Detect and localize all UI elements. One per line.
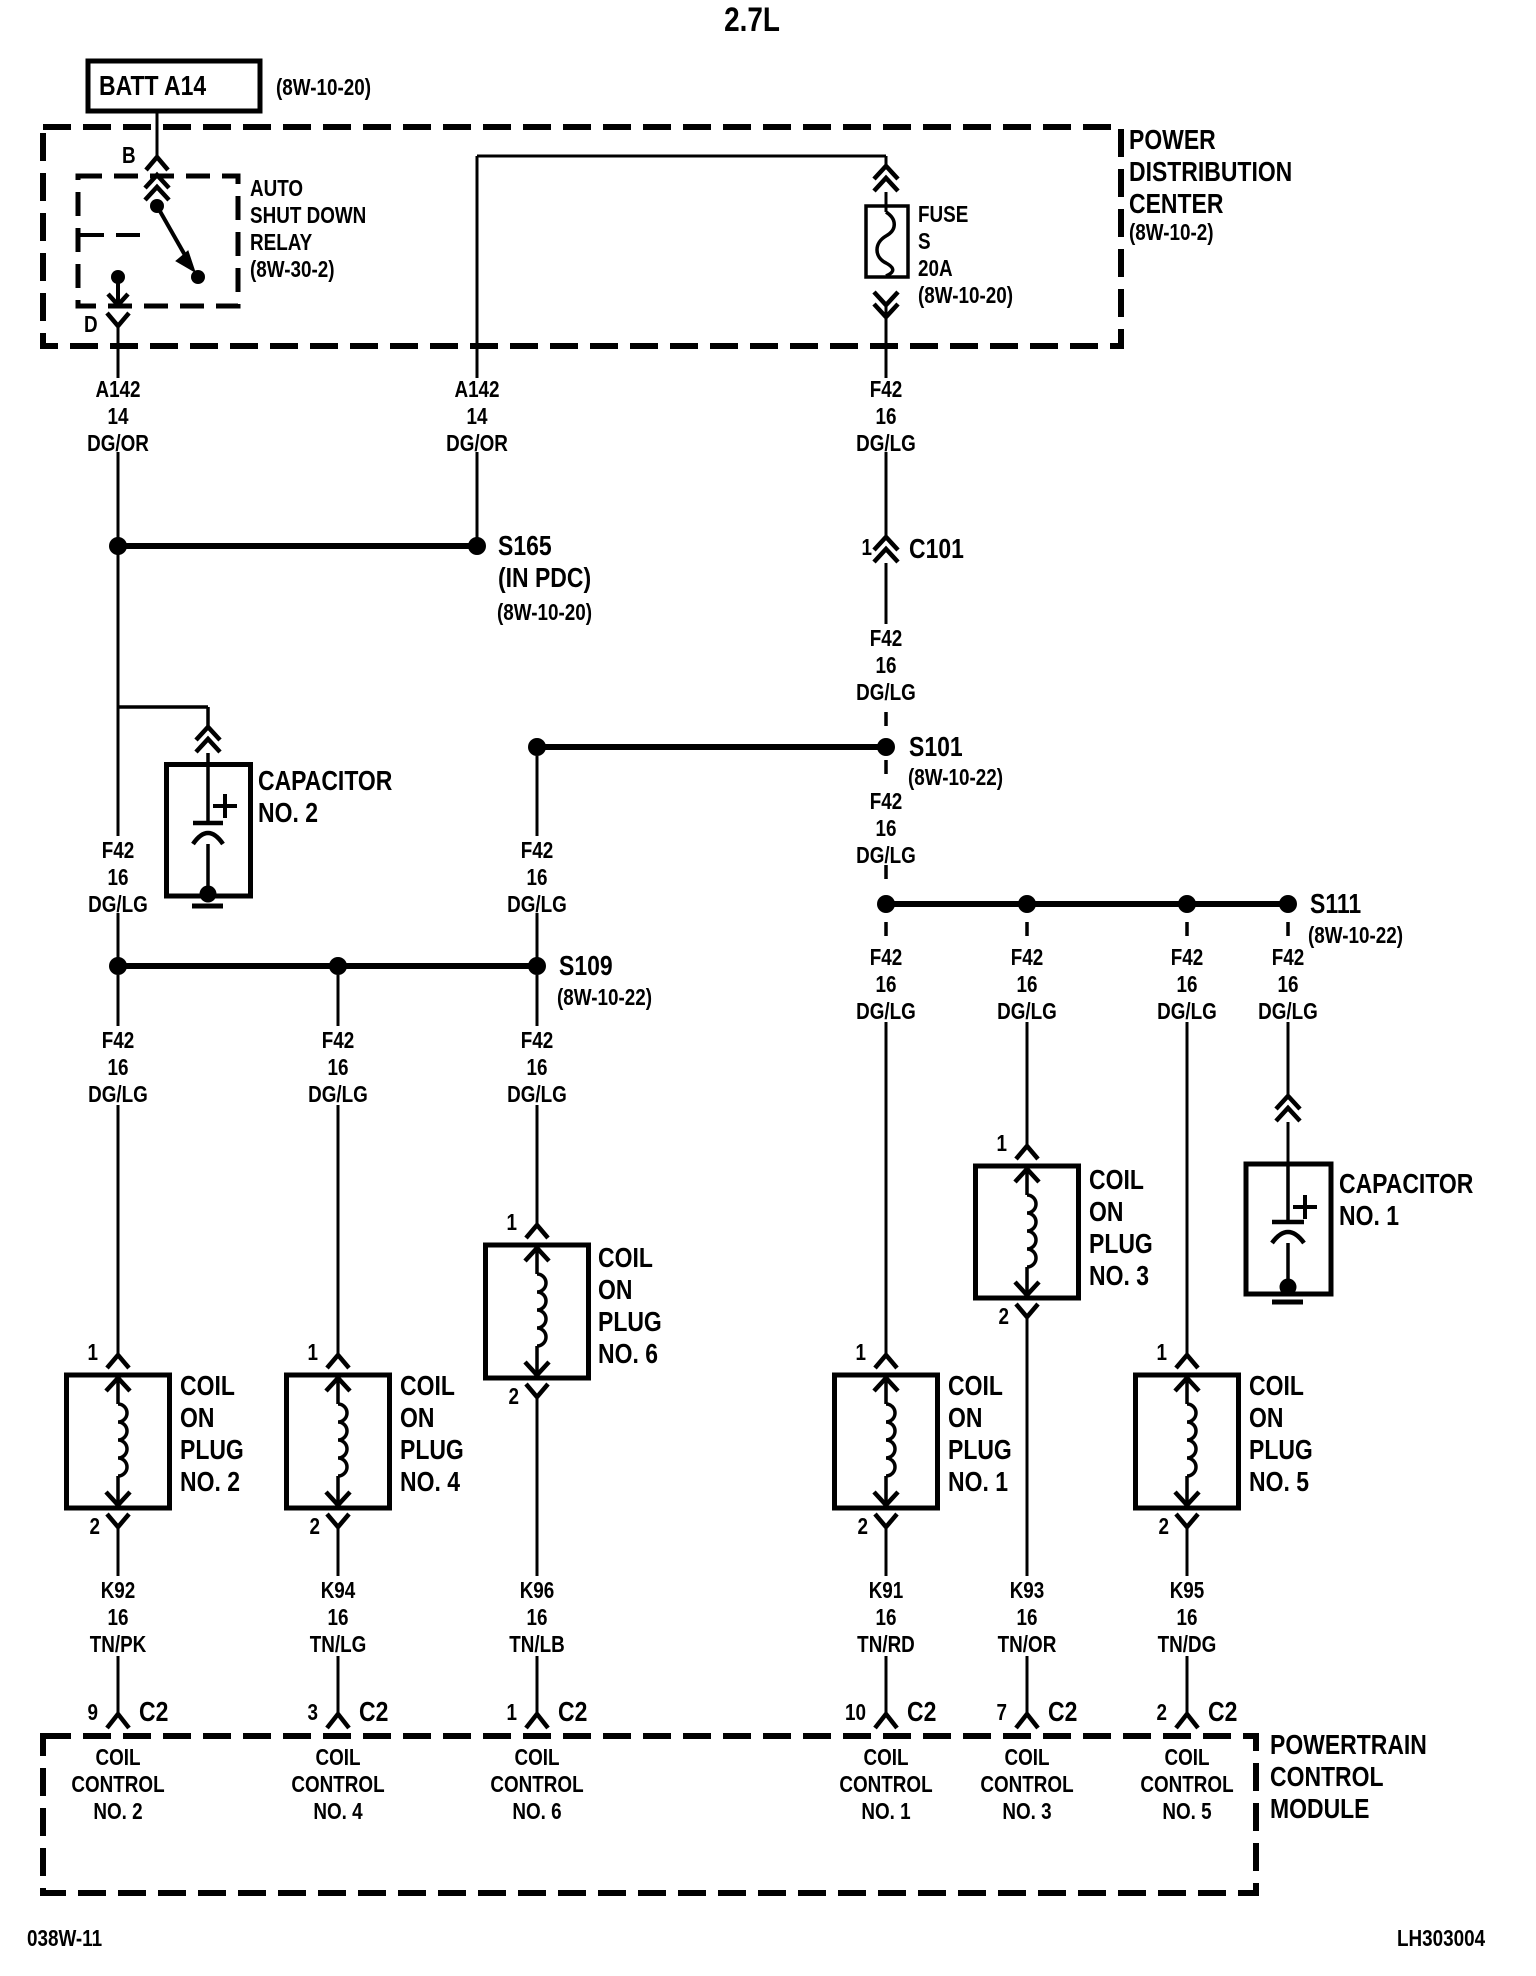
label BATT A14 [99, 70, 206, 102]
wire to coil on plug NO. 3 [1026, 1022, 1029, 1146]
stub below S111 dot [1025, 922, 1029, 936]
Power Distribution Center box [43, 127, 1121, 346]
connector label C2 [1208, 1696, 1237, 1728]
stub below S111 dot [1185, 922, 1189, 936]
label POWERTRAIN CONTROL MODULE [1270, 1729, 1427, 1825]
pin 2 chevron coil NO. 1 [875, 1514, 897, 1527]
splice label S111 [1310, 888, 1361, 920]
ground below capacitor no. 2 [192, 904, 223, 909]
connector label C101 [909, 533, 964, 565]
wire fuse to C101 [885, 452, 888, 537]
wire label K95 16 TN/DG [1121, 1577, 1252, 1658]
wire to PCM pin 9 [117, 1656, 120, 1714]
wire to coil on plug NO. 4 [337, 1105, 340, 1355]
pin number 1 coil NO. 1 [817, 1339, 866, 1366]
wire label F42 16 DG/LG left [52, 837, 183, 918]
wire BATT to relay pin B [156, 111, 159, 157]
pin number 2 coil NO. 3 [960, 1303, 1009, 1330]
label coil control NO. 3 [961, 1744, 1092, 1825]
coil on plug NO. 6 [486, 1245, 589, 1378]
wire label F42 16 DG/LG [471, 837, 602, 918]
pin 2 chevron coil NO. 3 [1016, 1304, 1038, 1317]
wire below S109 [117, 975, 120, 1026]
wire to coil on plug NO. 2 [117, 1105, 120, 1355]
pin number 2 coil NO. 1 [819, 1513, 868, 1540]
pin B chevron [146, 157, 168, 170]
Powertrain Control Module box [43, 1736, 1256, 1893]
wire to PCM pin 2 [1186, 1656, 1189, 1714]
splice label S165 IN PDC [498, 530, 591, 594]
pin 1 chevron coil NO. 3 [1016, 1146, 1038, 1159]
wire to capacitor no. 1 [1287, 1022, 1290, 1096]
label POWER DISTRIBUTION CENTER [1129, 124, 1292, 220]
pin number 7 [958, 1699, 1007, 1726]
pin number 2 coil NO. 2 [51, 1513, 100, 1540]
connector C2 pin 2 [1176, 1714, 1198, 1728]
label coil control NO. 5 [1121, 1744, 1252, 1825]
label engine 2.7L [686, 3, 817, 37]
splice S111 bus [886, 901, 1288, 907]
pin number 1 coil NO. 3 [958, 1130, 1007, 1157]
pin 1 chevron coil NO. 1 [875, 1355, 897, 1368]
Auto Shut Down relay [78, 176, 238, 306]
pin number 2 [1118, 1699, 1167, 1726]
wire below S109 [536, 975, 539, 1026]
wire to coil on plug NO. 5 [1186, 1022, 1189, 1355]
connector label C2 [139, 1696, 168, 1728]
pin 1 chevron coil NO. 4 [327, 1355, 349, 1368]
pin label D [84, 311, 98, 338]
pin number 2 coil NO. 5 [1120, 1513, 1169, 1540]
pin 1 chevron coil NO. 5 [1176, 1355, 1198, 1368]
connector C2 pin 1 [526, 1714, 548, 1728]
wire label K93 16 TN/OR [961, 1577, 1092, 1658]
reference 8W-10-2 [1129, 219, 1214, 246]
dashed wire to S101 [884, 712, 888, 726]
reference 8W-10-20 [276, 74, 371, 101]
coil on plug NO. 3 [976, 1166, 1079, 1298]
reference 8W-10-22 [557, 984, 652, 1011]
wire relay D down [117, 326, 120, 378]
pin number 10 [817, 1699, 866, 1726]
wire S101 to S109 [536, 756, 539, 836]
pin 2 chevron coil NO. 2 [107, 1514, 129, 1527]
wire label A142 14 DG/OR left [52, 376, 183, 457]
label COIL ON PLUG NO. 4 [400, 1370, 464, 1498]
label COIL ON PLUG NO. 3 [1089, 1164, 1153, 1292]
pin 1 chevron coil NO. 6 [526, 1225, 548, 1238]
pin label B [122, 142, 136, 169]
wire to coil on plug NO. 6 [536, 1105, 539, 1225]
ground below capacitor no. 1 [1272, 1300, 1303, 1305]
wire to fuse [477, 155, 886, 158]
pin number 1 [468, 1699, 517, 1726]
connector label C2 [359, 1696, 388, 1728]
splice S101 [537, 744, 886, 750]
wire label F42 16 DG/LG below S101 [820, 788, 951, 869]
stub below S111 dot [884, 922, 888, 936]
connector C2 pin 7 [1016, 1714, 1038, 1728]
wire to coil on plug NO. 1 [885, 1022, 888, 1355]
reference 8W-10-22 [1308, 922, 1403, 949]
pin number 1 coil NO. 4 [269, 1339, 318, 1366]
connector C2 pin 3 [327, 1714, 349, 1728]
relay pin D chevron [107, 313, 129, 326]
wire S165 down left [117, 546, 120, 707]
splice S109 bus [118, 963, 537, 969]
label coil control NO. 1 [820, 1744, 951, 1825]
label coil control NO. 4 [272, 1744, 403, 1825]
connector C101 [874, 537, 898, 550]
pin 2 chevron coil NO. 4 [327, 1514, 349, 1527]
pin 1 chevron coil NO. 2 [107, 1355, 129, 1368]
pin number 1 coil NO. 2 [49, 1339, 98, 1366]
splice label S101 [909, 731, 963, 763]
pin number 2 coil NO. 6 [470, 1383, 519, 1410]
wire to PCM pin 1 [536, 1656, 539, 1714]
pin number 2 coil NO. 4 [271, 1513, 320, 1540]
capacitor no. 2 [167, 765, 251, 897]
battery feed box BATT A14 [88, 61, 260, 111]
wire label K92 16 TN/PK [52, 1577, 183, 1658]
wire to PCM pin 3 [337, 1656, 340, 1714]
label AUTO SHUT DOWN RELAY [250, 175, 366, 283]
wire label K91 16 TN/RD [820, 1577, 951, 1658]
reference 8W-10-22 [908, 764, 1003, 791]
pin number 1 coil NO. 6 [468, 1209, 517, 1236]
wire to PCM pin 10 [885, 1656, 888, 1714]
pin number 3 [269, 1699, 318, 1726]
wire down to F42 label [117, 707, 120, 836]
wire label K94 16 TN/LG [272, 1577, 403, 1658]
coil on plug NO. 1 [835, 1375, 938, 1508]
label COIL ON PLUG NO. 2 [180, 1370, 244, 1498]
wires to PCM [117, 1527, 120, 1576]
wire to S165 [117, 452, 120, 546]
wire label F42 16 DG/LG fuse output [820, 376, 951, 457]
pin number 1 at C101 [823, 534, 872, 561]
pin number 9 [49, 1699, 98, 1726]
connector C2 pin 9 [107, 1714, 129, 1728]
splice label S109 [559, 950, 613, 982]
footer code LH303004 [1397, 1925, 1485, 1952]
label coil control NO. 2 [52, 1744, 183, 1825]
connector C2 pin 10 [875, 1714, 897, 1728]
stub below S111 dot [1286, 922, 1290, 936]
wire to PCM pin 7 [1026, 1656, 1029, 1714]
wire label A142 14 DG/OR middle [411, 376, 542, 457]
pin number 1 coil NO. 5 [1118, 1339, 1167, 1366]
connector label C2 [1048, 1696, 1077, 1728]
coil on plug NO. 2 [67, 1375, 170, 1508]
wire label K96 16 TN/LB [471, 1577, 602, 1658]
capacitor no.2 feed wire [118, 705, 208, 709]
label CAPACITOR NO. 1 [1339, 1168, 1473, 1232]
coil on plug NO. 4 [287, 1375, 390, 1508]
pin 2 chevron coil NO. 5 [1176, 1514, 1198, 1527]
fuse S 20A [874, 166, 898, 179]
coil on plug NO. 5 [1136, 1375, 1239, 1508]
label COIL ON PLUG NO. 1 [948, 1370, 1012, 1498]
footer code 038W-11 [27, 1925, 102, 1952]
label COIL ON PLUG NO. 6 [598, 1242, 662, 1370]
label FUSE S 20A [918, 201, 1013, 309]
label COIL ON PLUG NO. 5 [1249, 1370, 1313, 1498]
splice S165 bus [118, 543, 477, 549]
label CAPACITOR NO. 2 [258, 765, 392, 829]
wire below S109 [337, 975, 340, 1026]
label coil control NO. 6 [471, 1744, 602, 1825]
connector label C2 [558, 1696, 587, 1728]
connector label C2 [907, 1696, 936, 1728]
reference 8W-10-20 [497, 599, 592, 626]
pin 2 chevron coil NO. 6 [526, 1384, 548, 1397]
capacitor no. 1 [1246, 1164, 1331, 1294]
wire label F42 16 DG/LG below C101 [820, 625, 951, 706]
